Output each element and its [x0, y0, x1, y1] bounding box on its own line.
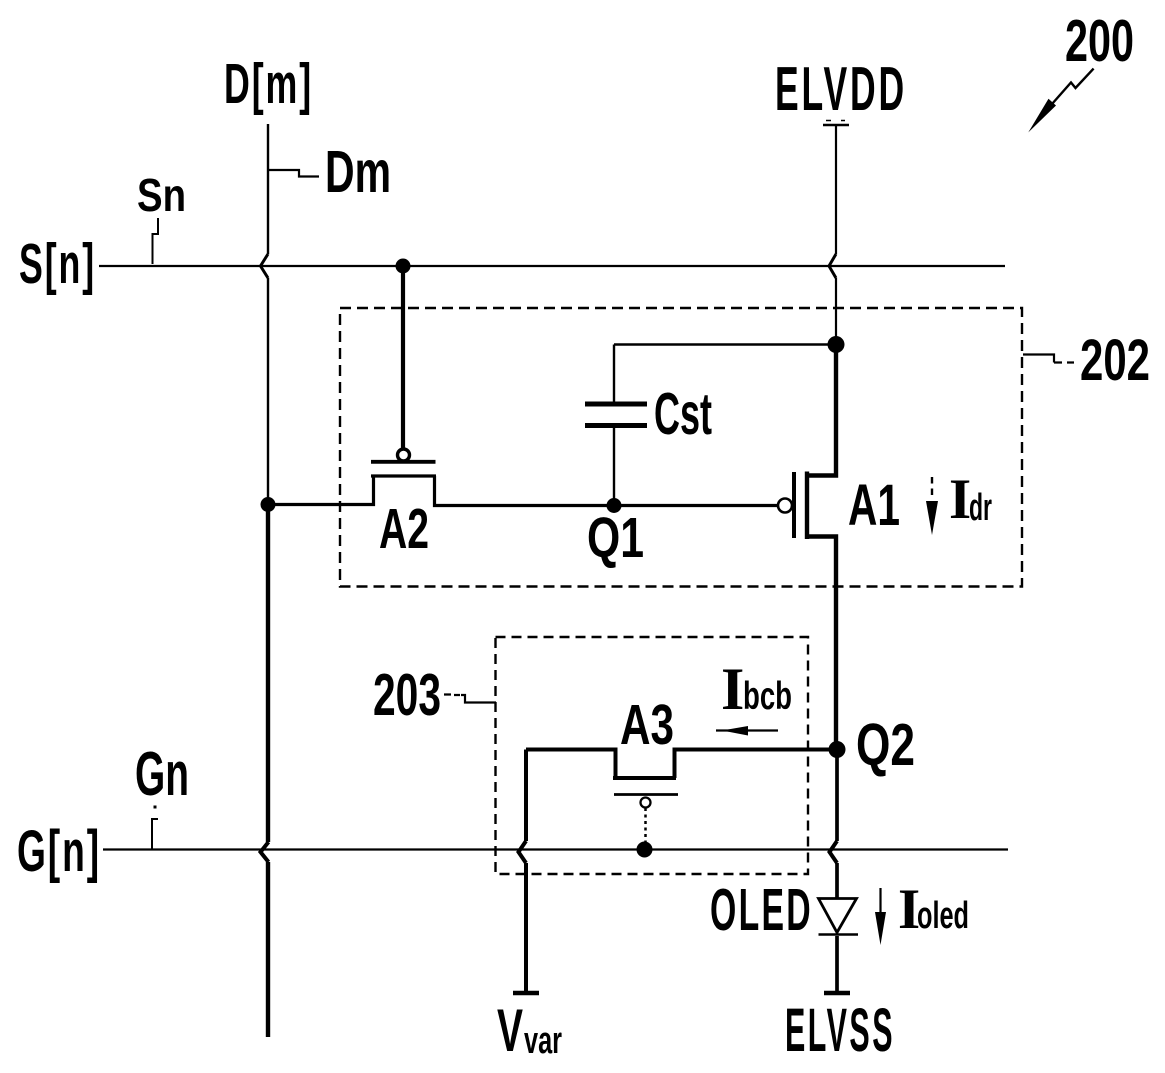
- svg-text:Sn: Sn: [137, 169, 186, 221]
- wire G[n] horizontal: [103, 848, 1008, 850]
- gate bar A2: [371, 460, 436, 464]
- svg-text:200: 200: [1065, 8, 1134, 74]
- svg-text:oled: oled: [917, 895, 969, 937]
- svg-text:ELVSS: ELVSS: [785, 996, 895, 1064]
- svg-text:V: V: [497, 997, 523, 1064]
- transistor A1 channel bar: [805, 472, 809, 540]
- gate bar A3: [614, 793, 678, 796]
- svg-text:Q1: Q1: [587, 506, 644, 570]
- wire Cst bottom to Q1: [613, 428, 615, 505]
- arrow 200 leader: [1052, 69, 1094, 104]
- wire A2 gate vertical: [401, 266, 405, 450]
- node dot Q2: [829, 741, 846, 758]
- leader Sn: [153, 218, 159, 264]
- crossover hop D[m] x G[n]: [261, 842, 269, 862]
- leader 202: [1023, 355, 1074, 363]
- crossover hop OLED x G[n]: [830, 841, 838, 863]
- transistor A2 body: [268, 476, 614, 506]
- leader Dm: [269, 170, 319, 177]
- wire A1 source to Q2 (bold): [806, 537, 836, 750]
- wire OLED to ELVSS: [835, 936, 839, 991]
- svg-text:Gn: Gn: [135, 740, 189, 809]
- node dot D[m]/A2: [261, 497, 276, 512]
- current arrow Ioled: [879, 888, 881, 912]
- leader 203: [444, 695, 496, 703]
- node dot A3 gate/G[n]: [637, 842, 653, 858]
- svg-text:I: I: [949, 468, 971, 531]
- current arrow Idr: [931, 477, 933, 500]
- capacitor Cst plates: [585, 404, 647, 426]
- node dot ELVDD/Cst: [828, 336, 845, 353]
- diode OLED: [819, 899, 857, 933]
- svg-text:dr: dr: [969, 487, 992, 529]
- svg-text:bcb: bcb: [743, 675, 792, 718]
- node dot Q1: [607, 498, 622, 513]
- gate bar A1: [792, 472, 796, 538]
- svg-text:A1: A1: [848, 473, 900, 538]
- wire Cst top from ELVDD node: [614, 345, 836, 402]
- crossover hop Vvar x G[n]: [519, 841, 527, 863]
- transistor A3 body: [526, 750, 837, 779]
- bubble A1 gate: [778, 499, 792, 513]
- svg-text:202: 202: [1080, 328, 1150, 393]
- dotted wire A3 gate to G[n]: [644, 808, 647, 845]
- terminal ELVSS: [824, 991, 850, 995]
- svg-text:A3: A3: [620, 693, 674, 757]
- wire S[n] horizontal: [99, 265, 1005, 267]
- wire ELVDD to A1 drain (bold): [806, 345, 836, 476]
- dashed box 203: [496, 637, 809, 874]
- wire Q2 to OLED (bold): [835, 750, 839, 900]
- bubble A3 gate: [641, 798, 651, 808]
- crossover hop D[m] x S[n]: [261, 254, 269, 278]
- svg-text:Q2: Q2: [856, 712, 915, 778]
- wire D[m] vertical lower (bold): [266, 504, 270, 1037]
- node dot S[n]/A2 gate: [396, 259, 411, 274]
- current arrow Ibcb: [716, 729, 778, 731]
- svg-text:G[n]: G[n]: [17, 819, 101, 884]
- svg-text:A2: A2: [379, 497, 429, 561]
- svg-text:D[m]: D[m]: [224, 52, 313, 116]
- svg-text:var: var: [524, 1020, 562, 1062]
- crossover hop ELVDD x S[n]: [829, 254, 836, 278]
- svg-text:S[n]: S[n]: [19, 232, 96, 296]
- terminal Vvar: [513, 991, 539, 995]
- svg-text:Cst: Cst: [654, 381, 712, 447]
- leader Gn: [152, 819, 158, 849]
- dashed box 202: [340, 308, 1022, 587]
- svg-text:ELVDD: ELVDD: [775, 55, 907, 124]
- wire Q1 to A1 gate: [614, 504, 777, 507]
- wire D[m] vertical upper: [267, 124, 269, 504]
- wire ELVDD vertical: [835, 125, 837, 344]
- svg-text:Dm: Dm: [325, 139, 391, 205]
- bubble A2 gate: [398, 449, 410, 461]
- svg-text:I: I: [721, 656, 744, 722]
- terminal ELVDD: [823, 124, 849, 126]
- svg-text:203: 203: [373, 662, 441, 728]
- wire A3 source to Vvar (bold): [524, 750, 528, 992]
- svg-text:OLED: OLED: [710, 877, 813, 943]
